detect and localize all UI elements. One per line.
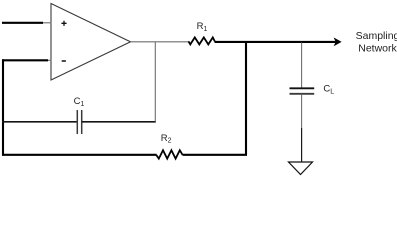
wire C1 row left [2,121,77,123]
resistor R1 [189,37,215,44]
op-amp U1 [51,4,131,81]
wire feedback right vertical (R2 return) [245,42,247,155]
svg-text:Sampling: Sampling [356,30,397,42]
wire R2 row right [183,154,247,156]
wire feedback left vertical [2,59,4,155]
svg-text:R1: R1 [197,21,208,33]
wire op-amp output [131,41,190,43]
wire noninverting input [2,22,52,24]
wire R2 row left [2,154,157,156]
wire output main line [215,41,336,43]
svg-text:R2: R2 [161,133,172,145]
svg-text:C1: C1 [74,96,85,108]
wire feedback vertical tap [154,42,156,122]
label Sampling Network [356,30,397,55]
resistor R2 [156,150,182,158]
capacitor CL [290,88,315,94]
svg-text:CL: CL [323,84,334,96]
wire CL top [301,43,303,88]
wire C1 row right [82,121,156,123]
wire inverting input [2,59,52,61]
ground [289,162,313,175]
wire CL bottom [301,95,303,162]
capacitor C1 [77,110,81,134]
svg-text:Network: Network [358,43,397,55]
arrowhead to sampling network [334,38,341,45]
